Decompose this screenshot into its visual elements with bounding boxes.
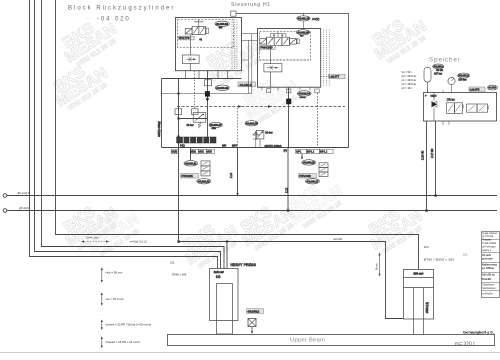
svg-text:ze-Drukhe: ze-Drukhe	[482, 292, 493, 295]
svg-text:M(2)X: M(2)X	[431, 95, 437, 97]
svg-text:Upper Beam: Upper Beam	[290, 338, 325, 344]
svg-text:A4(?): A4(?)	[312, 17, 319, 21]
relief valve 23bar body	[193, 112, 206, 122]
shutoff cock bowtie	[432, 101, 438, 107]
position sensor crossed box	[248, 319, 256, 327]
group R label box	[299, 174, 317, 179]
svg-text:MP1.2: MP1.2	[307, 151, 315, 154]
svg-text:Nullverseng: Nullverseng	[482, 262, 497, 266]
svg-text:Hub = 95 mm: Hub = 95 mm	[106, 271, 124, 275]
node junction dot	[287, 209, 289, 211]
oval tag -04.030.02	[458, 73, 470, 78]
group R oval tag low	[306, 179, 320, 184]
svg-text:p0 = 203 bar: p0 = 203 bar	[402, 74, 417, 78]
svg-text:(L1): (L1)	[216, 275, 220, 278]
svg-text:44: 44	[199, 39, 202, 42]
components layer 2	[161, 11, 348, 104]
wire rail P line x=29.5	[30, 0, 218, 269]
dense tag strip above manifold	[177, 137, 216, 143]
wire dashed pilot line under blocks	[177, 106, 345, 108]
node junction dot	[425, 209, 427, 211]
svg-text:Todvolumen: Todvolumen	[482, 285, 495, 287]
valve springs	[296, 39, 299, 44]
svg-text:pressure: pressure	[482, 257, 494, 261]
watermark stamp	[236, 67, 304, 129]
svg-text:Leit.078: Leit.078	[470, 87, 480, 91]
svg-text:Z.12: Z.12	[285, 187, 289, 193]
wire valve B down through throttle	[269, 46, 271, 88]
svg-text:20 bar: 20 bar	[265, 131, 272, 135]
svg-text:Z11: Z11	[170, 261, 175, 265]
inner valve pair 1	[447, 103, 455, 114]
label box Leit.077	[329, 74, 346, 78]
svg-text:Nutzvolumen: Nutzvolumen	[482, 287, 496, 290]
svg-text:Speicher: Speicher	[429, 57, 461, 64]
valve pilot tee above	[194, 20, 204, 27]
svg-text:MB3: MB3	[207, 151, 213, 154]
watermark stamp	[46, 54, 114, 116]
svg-text:-04.020.17: -04.020.17	[306, 180, 319, 183]
block A base line	[162, 78, 242, 80]
wire group L drop	[190, 148, 192, 161]
svg-text:P stat richtbar: P stat richtbar	[482, 242, 496, 245]
node port circle P	[3, 194, 7, 198]
group L oval tag	[184, 161, 198, 166]
oval tag -04.021.02	[296, 30, 309, 35]
svg-text:Δs=4...mm: Δs=4...mm	[86, 236, 98, 240]
svg-text:regime 1: regime 1	[482, 249, 492, 252]
watermark stamp	[361, 197, 429, 259]
svg-text:23 bar: 23 bar	[187, 124, 194, 127]
right cylinder body	[404, 270, 434, 320]
watermark stamp	[55, 10, 123, 72]
sensor arrow to beam	[251, 327, 253, 332]
svg-text:-04.021.04: -04.021.04	[298, 93, 311, 96]
inner valve pair 2	[467, 104, 478, 112]
oval tag -04.020.05	[215, 85, 229, 91]
svg-text:20 bar: 20 bar	[300, 96, 306, 99]
wire block A dashed drop x=194.5	[194, 71, 196, 108]
svg-text:-04.020.15: -04.020.15	[303, 162, 316, 165]
wire ports row y=93.5	[161, 60, 252, 94]
wire dashed pilot drop x=237.7	[237, 108, 239, 148]
svg-text:Ø700 / Ø350 x 383: Ø700 / Ø350 x 383	[424, 257, 454, 261]
svg-text:-04.020.1: -04.020.1	[239, 83, 252, 87]
svg-text:-04.020.03: -04.020.03	[216, 22, 229, 26]
components layer 3: speicher	[402, 64, 498, 160]
svg-text:MB2: MB2	[212, 128, 217, 130]
svg-text:(P): (P)	[284, 150, 288, 153]
wire rail x=34.5	[35, 0, 221, 269]
group R oval tag	[302, 160, 316, 165]
manifold port labels below line	[171, 149, 333, 153]
svg-text:GMT(Z-440kp): GMT(Z-440kp)	[265, 144, 282, 148]
svg-text:-04.020.13: -04.020.13	[198, 180, 211, 183]
oval tag top -04.021	[297, 16, 310, 21]
wire group R drop	[301, 154, 303, 159]
wire manifold bottom line	[162, 147, 349, 149]
watermark stamp	[199, 29, 267, 91]
wire valve to throttle	[190, 35, 192, 71]
svg-text:96 cm: 96 cm	[376, 263, 379, 270]
svg-text:m= 320 t: m= 320 t	[455, 341, 475, 347]
svg-text:SxR cm²: SxR cm²	[214, 270, 224, 274]
group L oval tag low	[197, 179, 211, 184]
svg-text:N gas volumen: N gas volumen	[482, 233, 498, 235]
check valve at x=256	[253, 131, 259, 147]
accumulator data text block	[402, 70, 417, 90]
label box WV.770	[178, 36, 194, 40]
block A dotted right border column	[232, 20, 237, 70]
wire block B right drop	[348, 77, 350, 148]
valve pilot tees above	[270, 31, 286, 37]
right cylinder top chamber lines	[404, 278, 434, 288]
wire top pilot line to right drop	[236, 13, 349, 76]
valve PWV.630 4/3 body	[267, 37, 275, 45]
node port circle T	[3, 209, 7, 213]
wire drop from manifold to P line with arrow	[237, 148, 239, 194]
throttle check valve box	[182, 55, 199, 63]
relief valve 20bar near manifold	[256, 130, 264, 139]
components layer	[158, 18, 333, 194]
svg-text:Freigabe: Freigabe	[482, 239, 492, 242]
port stub box	[286, 89, 291, 93]
svg-text:WV: WV	[219, 28, 223, 30]
dimension arrow stack	[101, 267, 103, 348]
wire block B dashed drop x=317	[317, 93, 319, 148]
svg-text:Z.17 ND: Z.17 ND	[431, 148, 434, 158]
svg-text:WV.770: WV.770	[179, 36, 190, 40]
valve PWV.630 right solenoid	[290, 39, 297, 45]
oval tag -04.021.04	[297, 91, 311, 96]
label box above manifold	[469, 87, 485, 91]
info table	[482, 232, 500, 298]
watermark stamp	[176, 212, 244, 274]
group R arrow	[301, 155, 303, 158]
svg-text:M(B): M(B)	[172, 151, 178, 154]
svg-text:-04.020.07: -04.020.07	[210, 124, 223, 127]
svg-text:-04 020: -04 020	[97, 17, 131, 23]
dashed stub right of label	[321, 75, 328, 77]
block B inner dashed enclosure	[260, 31, 311, 60]
wire horizontal stub y=118.3	[179, 118, 208, 120]
block B dotted right border extension	[324, 30, 330, 87]
node junction dot	[434, 194, 436, 196]
wire drop from manifold to T line	[287, 148, 289, 211]
valve WV.770 solenoid actuator	[185, 28, 192, 34]
svg-text:Val e/St as: Val e/St as	[482, 273, 495, 277]
components layer 4: cylinders, beam, table	[101, 232, 500, 349]
svg-text:WV: WV	[300, 36, 304, 38]
wire rail x=55 to accumulator cylinder	[56, 0, 419, 270]
left cylinder piston rod	[217, 284, 233, 335]
node junction dot	[177, 240, 179, 242]
svg-text:-04.021.02: -04.021.02	[297, 31, 310, 34]
svg-text:-04.040.2: -04.040.2	[247, 309, 259, 313]
dimension texts	[106, 271, 152, 344]
watermark stamp	[56, 194, 124, 256]
dashed line under inner enclosure B	[260, 59, 311, 61]
group L valve stack	[201, 161, 210, 166]
96cm dimension arrow	[379, 254, 381, 275]
svg-text:Z13: Z13	[424, 245, 429, 249]
terminal squares under dashed drops	[175, 109, 182, 115]
wire speicher ND drop	[435, 121, 437, 196]
oval tag -04.030.03	[488, 85, 498, 90]
svg-text:180 bar: 180 bar	[458, 79, 466, 82]
svg-text:MP3: MP3	[232, 145, 238, 148]
wire block B main drop x=288.6	[288, 87, 290, 147]
pilot line end fitting	[231, 11, 236, 16]
wire oval to block B	[302, 13, 304, 28]
sensor label box	[247, 309, 264, 314]
block B outline steuerung	[258, 29, 321, 88]
svg-text:Ø350 (L2): Ø350 (L2)	[426, 302, 429, 313]
block A inner dashed enclosure	[178, 20, 234, 48]
svg-text:-04.020.05: -04.020.05	[216, 86, 229, 90]
group L label box	[181, 174, 199, 179]
bottom page separator line	[0, 352, 500, 354]
speicher manifold block	[424, 93, 497, 122]
right cylinder piston rod	[414, 288, 424, 335]
block A outline -04.020	[176, 18, 242, 71]
label box PWV.630	[260, 46, 276, 50]
wire manifold left edge	[161, 79, 163, 148]
wire return line from block to cylinder rod side	[179, 79, 404, 319]
svg-text:PWV.632: PWV.632	[299, 174, 311, 178]
svg-text:po 184bar: po 184bar	[482, 266, 494, 270]
oval tag -04.020.09	[245, 121, 258, 126]
svg-text:p1 = 330 bar: p1 = 330 bar	[402, 78, 417, 82]
spring marks	[488, 106, 489, 110]
svg-text:xxs = 35 mm/s: xxs = 35 mm/s	[106, 297, 125, 301]
pressure gauge	[448, 77, 455, 84]
svg-text:Steuerung H1: Steuerung H1	[231, 2, 271, 8]
svg-text:Druckfl.: Druckfl.	[482, 277, 492, 281]
svg-text:Z.18 HD: Z.18 HD	[421, 150, 424, 160]
wire branch down to left cylinder from return line	[226, 242, 228, 269]
svg-text:Vpress = 25 PR 718 bar (= 95 m: Vpress = 25 PR 718 bar (= 95 mm/s)	[106, 323, 152, 327]
watermark stamp	[78, 200, 146, 262]
svg-text:P: P	[425, 95, 427, 97]
oval tag -04.030.01	[433, 64, 444, 69]
svg-text:sp 0 fix bar: sp 0 fix bar	[482, 235, 493, 238]
block A bottom port marks	[186, 71, 228, 79]
valve WV.770 4/2 body	[192, 26, 199, 34]
small port box right	[315, 89, 319, 93]
svg-text:197 bar: 197 bar	[434, 73, 442, 76]
throttle check valve box B	[264, 64, 282, 72]
svg-text:336 cm²: 336 cm²	[414, 271, 424, 275]
svg-text:181: 181	[463, 253, 468, 257]
port connector box below block A	[205, 80, 212, 86]
wire speicher HD drop	[426, 121, 428, 211]
svg-text:ø6 fabr: ø6 fabr	[334, 237, 343, 241]
accumulator bottle	[424, 67, 431, 82]
svg-text:HEAVY PRESS: HEAVY PRESS	[231, 263, 257, 267]
valve PWV.630 left solenoid	[260, 39, 267, 45]
svg-text:Genauigkeit ± 0,: Genauigkeit ± 0,	[463, 329, 494, 334]
watermark stamp	[281, 172, 349, 234]
shutoff valve black square B	[286, 99, 291, 105]
svg-text:-04.021.01: -04.021.01	[297, 18, 310, 21]
wire between blocks	[241, 34, 257, 94]
svg-text:96.1sQ.P: 96.1sQ.P	[18, 191, 31, 195]
group R valve stack	[319, 163, 328, 168]
left cylinder body	[210, 269, 239, 321]
wire block A pilot drop x=207.5	[207, 71, 209, 137]
svg-text:PWV.630: PWV.630	[260, 46, 272, 50]
wire rail x=41	[42, 0, 225, 269]
wire long pressure line y=195.5	[7, 195, 497, 197]
node junction dot	[177, 117, 179, 119]
watermark stamps layer	[46, 7, 433, 274]
svg-text:Block Rückzugszylinder: Block Rückzugszylinder	[68, 6, 175, 12]
svg-text:GMT(Z-440kp): GMT(Z-440kp)	[158, 121, 161, 137]
relief valve spring	[198, 122, 201, 128]
svg-text:s=S(e) 5.5 t.2: s=S(e) 5.5 t.2	[130, 239, 147, 243]
svg-text:MP1.2: MP1.2	[320, 151, 328, 154]
svg-text:Vo = 50 l: Vo = 50 l	[402, 70, 413, 74]
watermark stamp	[233, 194, 301, 256]
svg-text:P(1): P(1)	[180, 145, 185, 148]
svg-text:MB1: MB1	[191, 151, 197, 154]
svg-text:-04.020.09: -04.020.09	[246, 122, 259, 125]
upper beam bar	[168, 335, 495, 346]
svg-text:Leit.077: Leit.077	[329, 75, 339, 79]
svg-text:-04.020.11: -04.020.11	[185, 162, 197, 165]
svg-text:Vspeed = 25 PR + 24 mm/s: Vspeed = 25 PR + 24 mm/s	[106, 340, 141, 344]
svg-text:MP1: MP1	[296, 151, 302, 154]
svg-text:-04.030: -04.030	[488, 87, 497, 90]
svg-text:(TR kst: (TR kst	[447, 98, 455, 101]
shutoff valve black square on pilot drop	[205, 91, 210, 96]
svg-text:an Funk anpr: an Funk anpr	[482, 245, 496, 248]
svg-text:-04.030.2: -04.030.2	[458, 75, 469, 78]
oval tag -04.020.03	[215, 21, 229, 26]
svg-text:Z.14: Z.14	[229, 172, 233, 178]
oval tag -04.020.07	[209, 122, 222, 127]
svg-text:A3 GK: A3 GK	[436, 69, 443, 72]
svg-text:S/N: S/N	[222, 145, 226, 148]
svg-text:p5.3s/3: p5.3s/3	[19, 206, 29, 210]
svg-text:MB2: MB2	[199, 151, 205, 154]
svg-text:R540 x 383: R540 x 383	[172, 272, 187, 276]
wire long pressure line y=210.5	[7, 210, 497, 212]
valve WV.770 return spring	[205, 28, 208, 34]
watermark stamp	[365, 7, 433, 69]
svg-text:40 verh.: 40 verh.	[482, 253, 492, 257]
label box -04.020.01	[238, 82, 256, 87]
svg-text:p3 = 161: p3 = 161	[402, 86, 413, 90]
block B bottom ports	[267, 89, 271, 93]
svg-text:p2 = 330 bar: p2 = 330 bar	[402, 82, 417, 86]
svg-text:PWV.631: PWV.631	[181, 174, 193, 178]
port stubs below manifold	[428, 90, 450, 125]
